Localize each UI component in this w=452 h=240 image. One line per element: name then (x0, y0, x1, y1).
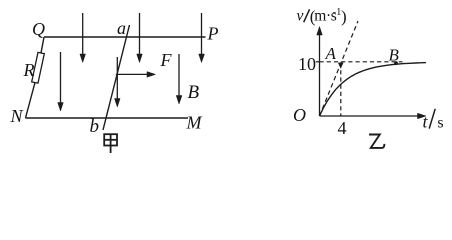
point B dot (394, 61, 398, 65)
force arrow F (116, 72, 156, 78)
field arrow 3 (199, 13, 205, 63)
svg-text:R: R (23, 60, 35, 80)
svg-text:b: b (90, 116, 100, 137)
dashed tangent line from O (320, 21, 359, 116)
svg-text:P: P (207, 24, 219, 44)
svg-text:s: s (437, 115, 443, 132)
svg-text:A: A (325, 44, 337, 63)
arrowhead marker at A (338, 63, 344, 69)
svg-text:B: B (389, 46, 400, 65)
axis label v/(m*s-1) (297, 7, 347, 26)
svg-text:10: 10 (298, 54, 316, 74)
svg-text:Q: Q (32, 19, 45, 39)
svg-text:O: O (293, 105, 306, 125)
field arrow 1 (80, 13, 86, 63)
caption jia (CJK drawn as strokes) (104, 134, 117, 153)
v-t curve (320, 63, 427, 116)
svg-text:): ) (341, 7, 347, 26)
resistor R (32, 52, 45, 83)
rod ab (103, 25, 130, 130)
field arrow 5 (inner middle, through rod) (115, 57, 121, 107)
y-axis v (317, 27, 323, 117)
caption yi (CJK drawn as strokes) (369, 135, 384, 148)
field arrow 6 (inner right, B) (176, 54, 182, 104)
svg-text:M: M (186, 113, 203, 133)
tick v=10 (316, 61, 320, 63)
field arrow 2 (137, 13, 143, 63)
x-axis t (320, 113, 427, 119)
svg-text:t: t (423, 112, 429, 132)
svg-text:4: 4 (338, 118, 347, 138)
svg-text:N: N (10, 106, 24, 126)
axis label t/s (423, 109, 444, 132)
svg-text:a: a (117, 18, 126, 38)
svg-text:v: v (297, 8, 304, 25)
wire left edge upper (Q corner to resistor) (41, 37, 44, 53)
wire bottom rail NM (26, 117, 189, 119)
wire top rail QP (44, 36, 206, 38)
svg-text:B: B (188, 82, 200, 103)
svg-text:F: F (160, 50, 173, 70)
field arrow 4 (inner left) (58, 52, 64, 111)
dashed line v=10 (320, 61, 403, 63)
dashed line t=4 (340, 63, 342, 116)
wire left edge lower (resistor to N corner) (26, 83, 36, 119)
